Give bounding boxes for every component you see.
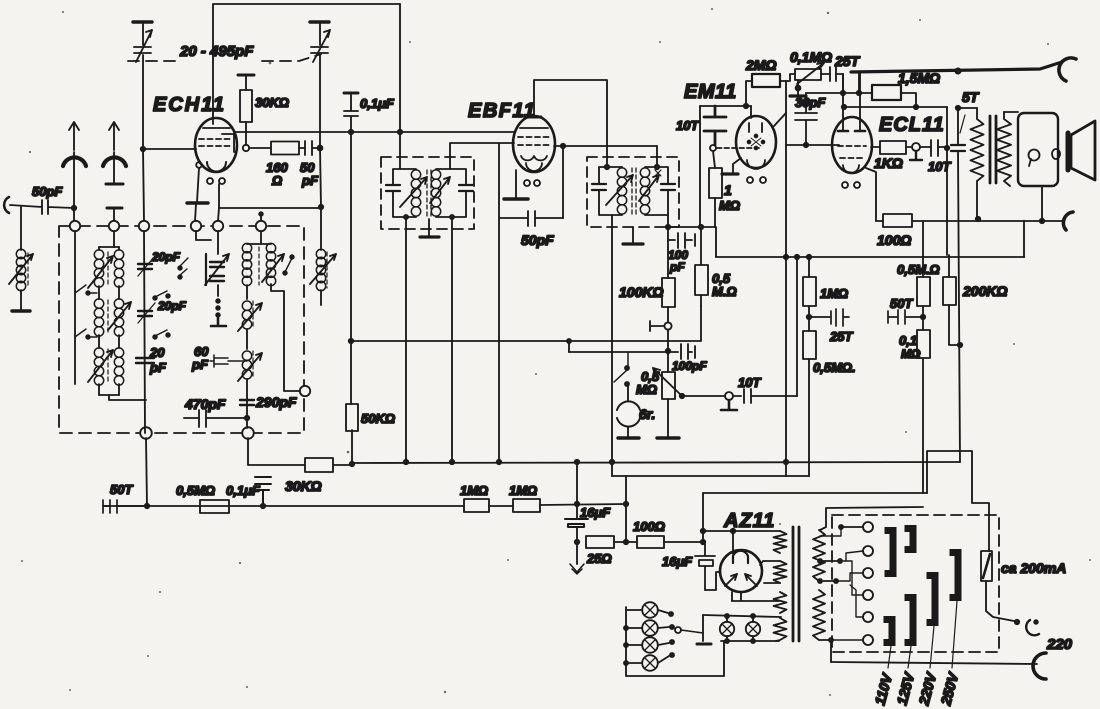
svg-text:pF: pF — [669, 260, 685, 274]
lamp 6r — [627, 386, 629, 401]
AZ11 anode arrows — [725, 574, 757, 586]
ground IF1 — [420, 235, 439, 238]
antenna 2 symbol — [103, 157, 126, 166]
capacitor 25T AF — [809, 309, 849, 326]
tube ECL11 — [832, 117, 872, 173]
wire x947 down to y255 — [946, 148, 948, 255]
wire primary top to 5T node — [958, 107, 977, 109]
svg-text:25Ω: 25Ω — [586, 551, 612, 566]
trimmer cap r2 — [210, 276, 224, 281]
arrow C2 — [313, 30, 330, 62]
trimmer cap 1 — [138, 264, 152, 269]
selector terminal 4 — [863, 590, 873, 600]
node x960 y345 — [958, 343, 962, 347]
node y107 x916 — [914, 105, 918, 109]
voltage selector dashed box — [832, 515, 999, 652]
svg-text:0,1: 0,1 — [899, 333, 917, 348]
ECL plate circle — [912, 143, 920, 151]
wire grid line y149 — [143, 148, 196, 150]
node 100pF2 — [666, 349, 670, 353]
svg-text:20pF: 20pF — [157, 299, 187, 313]
ECL11 grid bar right — [855, 130, 865, 133]
switch mains contact — [1015, 620, 1019, 624]
wire 16uF to 25ohm — [576, 527, 578, 564]
wire B+ column x960 — [958, 108, 960, 462]
svg-text:16μF: 16μF — [580, 505, 611, 520]
coil top rail — [99, 246, 119, 248]
svg-text:5T: 5T — [962, 89, 980, 105]
arrow coil F — [238, 303, 262, 331]
IF1 right coil — [431, 170, 440, 179]
resistor 1MOhm EM — [713, 151, 715, 227]
selector wiring tap e — [850, 585, 863, 617]
wire pot left to 2M node — [786, 74, 795, 81]
arrow coil row3 — [88, 350, 113, 382]
node x626 y542 — [624, 540, 628, 544]
svg-text:50T: 50T — [110, 482, 133, 497]
coil pair row3 right — [114, 348, 123, 357]
terminal T4 — [191, 221, 201, 231]
capacitor 290pF — [240, 400, 254, 405]
wire dial lamp top rail y615 — [703, 615, 781, 617]
wire secondary top to frame — [1004, 111, 1018, 113]
coil pair row1 left — [94, 250, 103, 259]
stub terminal 261 above — [260, 214, 262, 221]
IF2 right x mark — [655, 170, 661, 176]
wire 1K to plate circle — [906, 146, 912, 148]
resistor 0.5MOhm vertical — [695, 265, 708, 295]
wire EM11 top stem — [750, 106, 752, 118]
wire E right down — [271, 284, 300, 391]
wire rail stub x859 — [858, 72, 860, 93]
ECH11 cathode pin circle — [196, 162, 202, 168]
wire 1.5M right — [901, 93, 916, 107]
resistor 50KOhm — [346, 404, 358, 431]
wire ECL left grid stem — [842, 74, 844, 131]
EBF11 cathode arc — [526, 163, 542, 171]
output transformer core — [990, 116, 996, 183]
svg-text:pF: pF — [191, 357, 209, 372]
arrow coil G — [238, 353, 262, 381]
resistor 0.5MOhm AF — [803, 331, 816, 359]
wire AZ11 top stem — [732, 531, 734, 554]
node rail x787 — [784, 460, 788, 464]
svg-text:6r.: 6r. — [639, 406, 655, 422]
selector bar lower a — [884, 620, 893, 643]
svg-text:220: 220 — [1046, 636, 1073, 653]
jack circle y396 — [725, 392, 733, 400]
EBF11 anode bar internal — [520, 127, 548, 129]
selector terminal 5 — [863, 612, 873, 622]
svg-text:470pF: 470pF — [184, 396, 226, 412]
wire L1 to ground — [20, 290, 22, 311]
wire IF2 right bottom down — [667, 215, 669, 240]
wire ECL cathode down — [866, 168, 876, 221]
resistor 2MOhm — [746, 81, 752, 106]
wire 100pF column from IF2 — [668, 239, 675, 241]
selector bar 250V — [950, 553, 959, 598]
selector wiring tap d — [846, 561, 863, 595]
resistor 0.5MOhm right chain — [922, 221, 924, 277]
wire AZ11 plate row y531 — [703, 530, 780, 532]
IF2 ground stem — [632, 227, 634, 243]
wire ground stem terminal2 — [195, 204, 196, 221]
capacitor 100pF upper — [678, 233, 695, 248]
node x787 y257 — [784, 255, 788, 259]
wire y93 row — [806, 92, 859, 94]
arrow IF1 left — [400, 177, 427, 207]
switch box row2 left — [75, 329, 97, 337]
capacitor 50pF osc — [299, 141, 320, 155]
IF2 left loop — [599, 167, 622, 215]
arrow trimmer2 — [138, 303, 155, 323]
svg-text:1KΩ: 1KΩ — [874, 155, 903, 171]
wire primary bottom — [820, 640, 831, 662]
arrow L1 — [9, 254, 33, 284]
coil pair row2 right — [114, 299, 123, 308]
svg-text:50T: 50T — [890, 296, 913, 311]
node IF2 right top — [655, 165, 659, 169]
ECH11 top lead into tube — [212, 116, 214, 124]
wire primary tap2 — [820, 580, 836, 582]
terminal T8 bottom — [242, 427, 254, 439]
capacitor antenna2 plate upper — [106, 183, 123, 186]
svg-text:20: 20 — [149, 345, 165, 360]
wire pin to y208 — [218, 184, 220, 208]
pilot lamp 1 — [642, 602, 658, 618]
ECL11 grid bar left — [838, 130, 848, 133]
svg-text:10T: 10T — [676, 118, 699, 133]
node x703 y542 — [701, 540, 705, 544]
wire 10T up to y257 — [796, 257, 798, 396]
wire 2M right — [780, 81, 786, 476]
capacitor 16uF second — [695, 542, 715, 590]
wire y257 line — [716, 256, 1024, 258]
switch mid row3 — [155, 330, 167, 336]
ECL11 cathode arc — [843, 165, 859, 173]
ground EM11 — [722, 172, 738, 175]
wire 16uF neg to AZ11 — [705, 572, 720, 590]
node chain 25T — [807, 315, 811, 319]
tube EBF11 — [513, 116, 555, 172]
contact dots column — [216, 299, 220, 303]
wire mains y451 — [927, 451, 989, 551]
arrow IF2 left — [606, 175, 633, 205]
svg-text:20pF: 20pF — [151, 250, 181, 264]
output transformer secondary — [997, 112, 1011, 186]
svg-text:MΩ: MΩ — [719, 198, 740, 213]
trimmer cap 3 — [136, 358, 154, 363]
IF1 left loop — [393, 169, 416, 217]
svg-text:0,5MΩ.: 0,5MΩ. — [813, 360, 856, 375]
resistor 30K top bar — [238, 74, 254, 77]
svg-text:1MΩ: 1MΩ — [460, 483, 488, 498]
wire fuse to switch — [986, 581, 1014, 621]
capacitor 50T — [888, 310, 923, 324]
ground 6r — [618, 436, 639, 439]
wire 50pF left branch down — [20, 207, 22, 250]
capacitor 10T EM grid — [704, 106, 726, 145]
selector bar 110V — [885, 531, 894, 574]
lamp chassis T — [697, 643, 711, 646]
svg-text:EBF11: EBF11 — [468, 100, 536, 122]
arrow padder — [310, 254, 336, 284]
wire main rail y462 — [333, 462, 960, 465]
wire x947 down to 10T — [946, 107, 948, 148]
ECH11 pin 2 — [219, 178, 225, 184]
node pot wiper — [680, 394, 684, 398]
EM11 target diagonal — [774, 113, 786, 126]
wire ECH11 cathode to ground — [197, 168, 199, 202]
wire IF1 left bottom to rail — [405, 217, 407, 462]
trimmer cap 2 — [138, 311, 152, 316]
node 25ohm left — [575, 540, 579, 544]
terminal T1 — [70, 221, 80, 231]
wire AVC line y341 — [351, 306, 701, 341]
arrow C1 — [136, 30, 152, 62]
capacitor 60pF — [210, 358, 247, 364]
wire x626 up — [625, 476, 627, 542]
svg-text:20 - 495pF: 20 - 495pF — [179, 43, 254, 60]
wire 1M to dot — [808, 306, 810, 331]
arrow pot 0.5M — [653, 368, 682, 396]
terminal arc top output — [1059, 58, 1076, 81]
EM11 pin2 — [760, 177, 766, 183]
ground pot 0.1M — [790, 94, 806, 97]
coil pair E right — [266, 243, 275, 252]
svg-text:16μF: 16μF — [662, 554, 693, 569]
svg-text:0,1MΩ: 0,1MΩ — [790, 49, 832, 65]
resistor 25 Ohm — [586, 536, 614, 548]
svg-text:25T: 25T — [834, 53, 861, 69]
wire 0.5M to 0.1M — [922, 306, 924, 330]
wire left bus x75 — [74, 231, 76, 384]
wire heater row ends — [731, 600, 733, 602]
switch mid row1 — [180, 258, 188, 275]
node rail x577 — [575, 460, 579, 464]
node x147 y506 — [145, 504, 149, 508]
IF transformer 2 dashed box — [587, 157, 679, 227]
svg-text:Ω: Ω — [271, 173, 282, 188]
svg-text:1: 1 — [724, 182, 732, 198]
node y93 x859 — [857, 91, 861, 95]
wire T5 down — [217, 231, 219, 296]
svg-text:M.Ω: M.Ω — [712, 284, 737, 299]
node x703 y531 — [701, 529, 705, 533]
speaker cone — [1071, 121, 1095, 180]
pilot lamp 3 — [642, 637, 658, 653]
wire x703 vertical — [702, 493, 704, 542]
coil core dashes padder — [326, 252, 328, 288]
ground IF2 — [623, 242, 643, 245]
svg-text:100pF: 100pF — [672, 359, 707, 373]
arrow IF2 right — [639, 175, 659, 201]
resistor 100 Ohm psu — [637, 536, 664, 548]
wire y227 EM line — [668, 227, 716, 257]
wire primary top up and over — [820, 507, 923, 530]
svg-text:10T: 10T — [928, 159, 951, 174]
wire T6 stub — [247, 231, 271, 244]
node rail x612 — [610, 460, 614, 464]
wire winding2 bottom lead — [764, 582, 780, 584]
wire IF2 right top — [656, 146, 658, 167]
lamp selector pivot — [675, 627, 681, 633]
resistor 1KOhm — [871, 146, 880, 148]
node chain x809 top — [807, 255, 811, 259]
ECL11 pin1 — [842, 182, 848, 188]
capacitor 30pF — [795, 93, 817, 145]
switch mains hook — [1026, 620, 1039, 635]
wire 290 column — [246, 399, 248, 428]
switch coil E — [285, 258, 292, 272]
antenna 2 arrow — [109, 122, 119, 150]
coil pair row3 left — [94, 348, 103, 357]
wire T8 down to 30K row — [248, 438, 305, 465]
IF transformer 1 dashed box — [381, 157, 474, 229]
node padder top — [319, 205, 323, 209]
pilot lamp 4 — [642, 655, 658, 671]
arrow trimmer1 — [138, 256, 155, 276]
dial lamp A — [726, 616, 728, 641]
selector wiring tap c — [836, 573, 863, 581]
tap T-bar — [650, 321, 664, 331]
power transformer winding3 heater — [774, 592, 787, 613]
wire top rail — [851, 62, 1062, 72]
power transformer core — [793, 527, 799, 641]
svg-text:30pF: 30pF — [795, 95, 826, 110]
wire antenna1 down — [73, 152, 75, 221]
wire EBF cathode ground stem — [515, 170, 517, 198]
wire pot top from y352 — [667, 352, 669, 372]
arrow coil E — [262, 254, 284, 282]
EM grid circle — [710, 145, 716, 151]
ECL11 dashed grid2 — [840, 157, 864, 159]
wire to 160 ohm — [249, 147, 271, 149]
arrow coil row2 — [108, 302, 131, 330]
EBF11 diode arcs internal — [521, 156, 547, 160]
IF1 right loop — [436, 169, 466, 217]
arrow trimmer right — [205, 254, 229, 285]
IF1 left cap — [386, 185, 400, 191]
resistor 1MOhm a — [464, 499, 489, 512]
switch box row1 left — [75, 285, 97, 293]
svg-text:100Ω: 100Ω — [877, 232, 911, 248]
ground right section — [211, 318, 226, 326]
capacitor 0.1uF bottom — [255, 477, 271, 506]
svg-text:ca 200mA: ca 200mA — [1001, 560, 1066, 576]
node 0.1uF anode line — [349, 130, 353, 134]
capacitor 50T left — [103, 500, 117, 513]
wire chain stem bottom — [808, 359, 810, 476]
resistor 1.5MOhm — [872, 85, 901, 100]
terminal arc bottom output — [1063, 212, 1073, 230]
speaker frame — [1018, 113, 1058, 186]
EM11 internal cross dots — [755, 135, 758, 138]
potentiometer 0.5MOhm — [662, 372, 675, 399]
wire IF2 left bottom long — [611, 215, 613, 476]
wire 0.1M down to y493 — [922, 358, 924, 493]
node osc grid — [318, 146, 323, 151]
leader 250V — [952, 601, 957, 668]
coil core dashes L1 — [27, 253, 29, 287]
wire AZ11 bottom to winding3 — [732, 592, 779, 601]
svg-text:10T: 10T — [738, 375, 761, 390]
capacitor 100pF lower — [681, 344, 695, 359]
EBF11 top bar — [527, 116, 541, 119]
wire antenna2 down — [113, 152, 115, 183]
capacitor 0.1uF top bar — [344, 92, 358, 95]
node x626 y504 — [624, 502, 628, 506]
svg-text:pF: pF — [301, 173, 319, 188]
ECH11 internal bracket — [222, 134, 234, 152]
svg-text:2MΩ: 2MΩ — [745, 57, 776, 73]
dial lamp B — [752, 616, 754, 641]
wire pot bottom ground — [667, 399, 669, 437]
svg-text:ECH11: ECH11 — [153, 94, 226, 116]
svg-text:0,5MΩ: 0,5MΩ — [176, 483, 215, 498]
wire antenna2 to terminal — [113, 209, 115, 221]
node y93 x843 — [841, 91, 845, 95]
node EM feed — [744, 104, 748, 108]
wire 1M line y505 — [103, 504, 626, 506]
trimmer pair right T-bar — [205, 254, 207, 285]
wire T7 down — [146, 438, 147, 506]
node IF2 bottom — [666, 225, 670, 229]
pilot lamp 2 — [642, 620, 658, 636]
node 470 join — [245, 416, 249, 420]
ECH11 grid2 dashed internal — [199, 145, 233, 147]
wire AZ11 right to winding2 — [760, 561, 780, 565]
speaker cone throat — [1066, 133, 1071, 170]
selector terminal 1 — [863, 522, 873, 532]
wire T4 down — [196, 231, 211, 240]
power transformer primary lower — [813, 590, 825, 640]
pilot lamp group bus — [626, 607, 724, 676]
wire 0.5M bottom — [700, 295, 702, 306]
wire EM grid to tube dashed — [717, 147, 762, 149]
node x958 y108 — [956, 106, 960, 110]
inductor L1 variable — [16, 249, 25, 258]
selector wiring tap f — [831, 639, 863, 641]
IF2 core dashed — [632, 168, 636, 214]
resistor 1MOhm b — [513, 499, 540, 512]
switch mid row2 — [155, 291, 167, 297]
tube ECH11 — [195, 118, 237, 172]
capacitor 16uF first — [565, 519, 588, 527]
node 50T junction — [921, 315, 925, 319]
wire mains bottom y662 — [831, 662, 1037, 664]
wire top box right down to IF1 — [399, 4, 401, 169]
svg-text:30KΩ: 30KΩ — [255, 95, 289, 110]
speaker voice coil circle — [1029, 150, 1040, 161]
switch 6r — [614, 352, 628, 382]
terminal T9 right — [300, 386, 310, 396]
ECH11 cathode arc — [207, 162, 226, 172]
ECH11 pin 1 — [207, 178, 213, 184]
IF2 right cap — [661, 184, 675, 190]
svg-text:50KΩ: 50KΩ — [361, 411, 395, 426]
svg-text:MΩ: MΩ — [636, 382, 657, 397]
antenna 1 symbol — [63, 157, 86, 166]
node x947 y147 — [945, 146, 949, 150]
svg-text:MΩ: MΩ — [901, 347, 921, 361]
EBF11 grid2 dashed internal — [518, 144, 550, 146]
node antenna junction — [72, 206, 76, 210]
wire y208 ECH cathode row — [219, 207, 321, 209]
EM11 ground left — [733, 158, 741, 172]
IF1 ground stem — [428, 219, 430, 236]
terminal T7 bottom — [140, 427, 152, 439]
